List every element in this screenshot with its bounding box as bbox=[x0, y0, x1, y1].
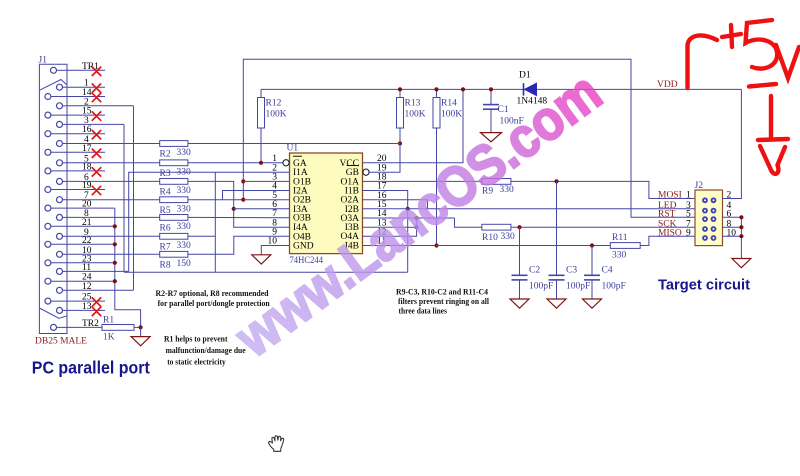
svg-text:1K: 1K bbox=[103, 333, 115, 343]
wire I3A branch bbox=[234, 208, 290, 210]
hand cursor icon bbox=[269, 436, 284, 452]
wire pin 17 bbox=[67, 151, 105, 153]
svg-text:13: 13 bbox=[82, 302, 92, 312]
connector J1 key notch bottom bbox=[39, 308, 67, 318]
connector J2 pin circle row 2 bbox=[711, 208, 717, 214]
IC U1 pin 1 bubble bbox=[283, 160, 289, 166]
wire O3A to SCK net bbox=[363, 217, 455, 219]
wire O2B branch bbox=[243, 199, 289, 201]
svg-text:330: 330 bbox=[177, 204, 192, 214]
wire GND bus vertical bbox=[115, 208, 141, 327]
ground at U1 GND bbox=[252, 255, 271, 264]
wire GB net to pin 19 bbox=[369, 144, 400, 173]
wire O1A to R9 bbox=[363, 180, 482, 182]
wire O4A branch bbox=[363, 218, 417, 236]
svg-text:GND: GND bbox=[293, 242, 314, 252]
connector J1 pin 12 bbox=[57, 287, 63, 293]
wire pin 2 bbox=[67, 105, 134, 107]
svg-text:C4: C4 bbox=[602, 266, 613, 276]
svg-text:R13: R13 bbox=[405, 99, 421, 109]
connector J1 pin 9 bbox=[57, 233, 63, 239]
svg-text:J1: J1 bbox=[39, 56, 48, 66]
junction R13 at GB net bbox=[398, 141, 402, 145]
capacitor C1 bbox=[490, 89, 492, 104]
resistor R4 bbox=[160, 179, 188, 185]
svg-text:330: 330 bbox=[177, 241, 192, 251]
svg-text:D1: D1 bbox=[519, 71, 531, 81]
no-connect X on pin 25 bbox=[92, 297, 101, 306]
svg-text:PC parallel port: PC parallel port bbox=[32, 357, 150, 377]
wire pin 4 bbox=[67, 143, 160, 145]
wire pin 14 bbox=[67, 96, 105, 98]
wire I2B / LED line to J2 bbox=[363, 208, 696, 210]
connector J1 pin 13 bbox=[57, 307, 63, 313]
wire pin TR2 bbox=[67, 326, 102, 328]
wire RST loop bbox=[243, 59, 695, 217]
resistor R7 bbox=[160, 233, 188, 239]
no-connect X on pin 17 bbox=[92, 149, 101, 158]
svg-text:330: 330 bbox=[177, 148, 192, 158]
svg-text:TR2: TR2 bbox=[82, 319, 99, 329]
connector J2 pin circle row 1 bbox=[711, 197, 717, 203]
wire pin 18 bbox=[67, 170, 105, 172]
capacitor C4 bbox=[591, 246, 593, 276]
connector J1 pin TR2 bbox=[51, 324, 57, 330]
junction R13 top bbox=[398, 87, 402, 91]
wire pin TR1 bbox=[67, 69, 105, 71]
svg-text:Target circuit: Target circuit bbox=[658, 277, 750, 294]
wire pin 6 bbox=[67, 180, 160, 182]
connector J1 pin 15 bbox=[45, 112, 51, 118]
wire pin 20 bbox=[67, 207, 115, 209]
wire O1B branch bbox=[243, 180, 289, 182]
wire pin 16 bbox=[67, 133, 105, 135]
connector J1 DB25 body bbox=[39, 64, 67, 333]
no-connect X on pin TR1 bbox=[92, 67, 101, 76]
connector J1 pin 7 bbox=[57, 197, 63, 203]
svg-text:MISO: MISO bbox=[658, 228, 682, 238]
connector J1 pin 6 bbox=[57, 178, 63, 184]
resistor R9 bbox=[482, 179, 511, 185]
junction C4 tap on MISO bbox=[590, 243, 594, 247]
wire pin 22 bbox=[67, 243, 115, 245]
svg-text:R11: R11 bbox=[612, 233, 628, 243]
connector J1 pin 5 bbox=[57, 160, 63, 166]
connector J2 pin circle row 3 bbox=[702, 216, 708, 222]
no-connect X on pin 16 bbox=[92, 130, 101, 139]
no-connect X on pin 1 bbox=[92, 84, 101, 93]
junction R12 at GA bbox=[259, 161, 263, 165]
wire R1 to ground bbox=[140, 327, 142, 336]
wire R5 output to O2B bbox=[188, 199, 243, 201]
connector J1 pin 16 bbox=[45, 131, 51, 137]
svg-text:330: 330 bbox=[501, 232, 516, 242]
connector J1 pin 19 bbox=[45, 187, 51, 193]
junction C1 top bbox=[489, 87, 493, 91]
junction pin 22 on GND bus bbox=[113, 242, 117, 246]
connector J1 pin 25 bbox=[45, 298, 51, 304]
junction pin 21 on GND bus bbox=[113, 224, 117, 228]
wire GND pin 10 to ground bbox=[261, 246, 289, 255]
wire I1B riser bbox=[363, 191, 408, 273]
svg-text:9: 9 bbox=[686, 228, 691, 238]
connector J1 pin 11 bbox=[57, 268, 63, 274]
resistor R11 bbox=[610, 243, 640, 249]
wire pin 8 bbox=[67, 216, 160, 218]
resistor R10 bbox=[482, 224, 511, 230]
svg-text:malfunction/damage due: malfunction/damage due bbox=[166, 345, 246, 355]
capacitor C2 bbox=[519, 227, 521, 275]
capacitor C3 bbox=[556, 181, 558, 275]
connector J1 pin 1 bbox=[57, 84, 63, 90]
resistor R14 bbox=[433, 98, 440, 129]
wire DB25 pin 2 vertical to pin 12 bbox=[133, 106, 135, 290]
wire pin 15 bbox=[67, 114, 105, 116]
wire J2 pin 2 to VDD bbox=[723, 89, 742, 198]
ground at C4 bbox=[583, 299, 602, 308]
ground at C1 bbox=[481, 133, 502, 142]
junction C3 tap on MOSI bbox=[554, 179, 558, 183]
svg-text:C2: C2 bbox=[529, 266, 540, 276]
svg-text:19: 19 bbox=[82, 181, 92, 191]
svg-text:330: 330 bbox=[177, 222, 192, 232]
wire DB25 pin 3 vertical bbox=[123, 124, 125, 272]
connector J1 pin 2 bbox=[57, 103, 63, 109]
svg-text:330: 330 bbox=[612, 251, 627, 261]
connector J1 pin 20 bbox=[45, 205, 51, 211]
wire pin 23 bbox=[67, 262, 115, 264]
wire R7 output to feedback net bbox=[188, 235, 215, 237]
connector J1 pin 22 bbox=[45, 241, 51, 247]
svg-text:17: 17 bbox=[82, 144, 92, 154]
svg-text:R9-C3, R10-C2 and R11-C4: R9-C3, R10-C2 and R11-C4 bbox=[396, 286, 489, 296]
IC U1 pin 19 bubble bbox=[363, 169, 369, 175]
resistor R13 bbox=[397, 98, 404, 129]
connector J2 pin circle row 5 bbox=[711, 235, 717, 241]
wire DB25 pin 11 to I1A bbox=[129, 172, 290, 271]
connector J1 pin 3 bbox=[57, 121, 63, 127]
svg-text:5: 5 bbox=[686, 210, 691, 220]
svg-text:to static electricity: to static electricity bbox=[167, 356, 226, 366]
wire pin 25 bbox=[67, 300, 105, 302]
svg-text:16: 16 bbox=[82, 125, 92, 135]
connector J1 pin 23 bbox=[45, 260, 51, 266]
svg-text:330: 330 bbox=[177, 186, 192, 196]
connector J1 pin 8 bbox=[57, 214, 63, 220]
svg-text:100pF: 100pF bbox=[529, 282, 553, 292]
svg-text:R14: R14 bbox=[441, 99, 457, 109]
no-connect X on pin 18 bbox=[92, 167, 101, 176]
junction R14 top bbox=[434, 87, 438, 91]
resistor R3 bbox=[160, 160, 188, 166]
wire I4B / MISO line bbox=[363, 245, 611, 247]
wire R2 output to GB node bbox=[188, 143, 398, 145]
resistor R2 bbox=[160, 141, 188, 147]
wire pin 9 bbox=[67, 235, 160, 237]
svg-text:RST: RST bbox=[658, 210, 676, 220]
svg-text:100pF: 100pF bbox=[566, 282, 590, 292]
svg-text:6: 6 bbox=[727, 210, 732, 220]
junction loop at O1B bbox=[241, 179, 245, 183]
connector J1 key notch top bbox=[39, 80, 67, 91]
no-connect X on pin 19 bbox=[92, 186, 101, 195]
wire SCK to J2 bbox=[511, 226, 695, 228]
IC U1 74HC244 body bbox=[290, 153, 363, 254]
wire R6 output to O3B bbox=[188, 216, 290, 218]
hand-drawn +5V marking bbox=[688, 20, 800, 174]
svg-text:100K: 100K bbox=[441, 110, 462, 120]
svg-text:MOSI: MOSI bbox=[658, 191, 682, 201]
svg-text:11: 11 bbox=[82, 263, 91, 273]
resistor R5 bbox=[160, 197, 188, 203]
svg-text:22: 22 bbox=[82, 236, 92, 246]
junction loop at O2B bbox=[241, 198, 245, 202]
no-connect X on pin 14 bbox=[92, 93, 101, 102]
svg-text:DB25 MALE: DB25 MALE bbox=[35, 337, 87, 347]
connector J2 pin circle row 4 bbox=[702, 226, 708, 232]
connector J1 pin 18 bbox=[45, 168, 51, 174]
wire VCC pin 20 to rail bbox=[363, 89, 464, 162]
resistor R12 bbox=[258, 98, 265, 129]
connector J1 pin 24 bbox=[45, 278, 51, 284]
svg-text:2: 2 bbox=[727, 191, 732, 201]
junction pin 24 on GND bus bbox=[113, 279, 117, 283]
svg-text:10: 10 bbox=[727, 228, 737, 238]
resistor R8 bbox=[160, 251, 188, 257]
svg-text:R1 helps to prevent: R1 helps to prevent bbox=[164, 334, 228, 344]
wire O2A branch to LED net bbox=[363, 200, 428, 209]
svg-text:R6: R6 bbox=[160, 224, 171, 234]
resistor R1 bbox=[102, 325, 134, 331]
svg-text:R2: R2 bbox=[160, 150, 171, 160]
ground at R1 bbox=[131, 337, 150, 346]
svg-text:U1: U1 bbox=[287, 144, 299, 154]
connector J2 pin circle row 5 bbox=[702, 235, 708, 241]
svg-text:C3: C3 bbox=[566, 266, 577, 276]
connector J1 pin 21 bbox=[45, 223, 51, 229]
connector J1 pin 10 bbox=[57, 251, 63, 257]
junction I3B tie bbox=[415, 225, 419, 229]
wire SCK drive bbox=[455, 218, 482, 227]
connector J1 pin 14 bbox=[45, 94, 51, 100]
svg-text:12: 12 bbox=[82, 282, 92, 292]
wire pin 11 bbox=[67, 270, 129, 272]
no-connect X on pin 13 bbox=[92, 307, 101, 316]
svg-text:R3: R3 bbox=[160, 169, 171, 179]
junction O4A tie bbox=[415, 216, 419, 220]
wire pin 5 bbox=[67, 162, 160, 164]
connector J2 pin circle row 4 bbox=[711, 226, 717, 232]
wire under IC feedback bbox=[124, 271, 408, 273]
junction riser at LED line bbox=[406, 207, 410, 211]
wire R8 output to O4B bbox=[188, 236, 290, 254]
ground at C2 bbox=[510, 299, 529, 308]
ground at C3 bbox=[547, 299, 566, 308]
wire pin 10 bbox=[67, 253, 160, 255]
wire pin 1 bbox=[67, 86, 105, 88]
junction J2 pin 8 bbox=[739, 225, 743, 229]
connector J2 pin circle row 3 bbox=[711, 216, 717, 222]
svg-text:150: 150 bbox=[177, 259, 192, 269]
no-connect X on pin 15 bbox=[92, 111, 101, 120]
diode D1 1N4148 bbox=[525, 83, 537, 95]
connector J1 pin TR1 bbox=[51, 67, 57, 73]
wire R11 to J2 MISO bbox=[640, 236, 695, 245]
connector J1 pin 17 bbox=[45, 149, 51, 155]
connector J2 body bbox=[695, 190, 723, 246]
wire R3 output to GA node bbox=[188, 162, 283, 164]
junction R1 output bbox=[139, 325, 143, 329]
wire MOSI to J2 bbox=[511, 181, 695, 198]
ground at J2 bbox=[732, 259, 751, 268]
svg-text:R4: R4 bbox=[160, 188, 171, 198]
wire pin 3 bbox=[67, 123, 124, 125]
svg-text:three data lines: three data lines bbox=[399, 305, 448, 315]
junction VCC riser at rail bbox=[461, 87, 465, 91]
svg-text:100K: 100K bbox=[266, 110, 287, 120]
wire vertical feedback riser bbox=[214, 172, 216, 272]
svg-text:21: 21 bbox=[82, 218, 92, 228]
connector J1 pin 4 bbox=[57, 141, 63, 147]
wire pin 7 bbox=[67, 199, 160, 201]
svg-text:7: 7 bbox=[272, 209, 277, 219]
svg-text:100K: 100K bbox=[405, 110, 426, 120]
junction C2 tap on SCK bbox=[517, 225, 521, 229]
svg-text:100pF: 100pF bbox=[602, 282, 626, 292]
junction R4 net at I3A bbox=[232, 207, 236, 211]
wire J2 ground pins bbox=[723, 217, 742, 258]
wire pin 13 bbox=[67, 309, 105, 311]
wire pin 12 bbox=[67, 289, 134, 291]
connector J2 pin circle row 1 bbox=[702, 197, 708, 203]
wire pin 24 bbox=[67, 280, 115, 282]
wire R4 output bbox=[188, 181, 290, 227]
svg-text:O3B: O3B bbox=[293, 214, 311, 224]
junction R14 at MISO line bbox=[434, 243, 438, 247]
svg-text:R12: R12 bbox=[266, 99, 282, 109]
wire I2A branch from R5 line bbox=[223, 191, 290, 200]
power rail VDD bbox=[261, 88, 741, 90]
svg-text:18: 18 bbox=[82, 162, 92, 172]
svg-text:R1: R1 bbox=[103, 315, 114, 325]
svg-text:1: 1 bbox=[686, 191, 691, 201]
svg-text:R8: R8 bbox=[160, 261, 171, 271]
svg-text:R10: R10 bbox=[482, 233, 498, 243]
resistor R6 bbox=[160, 215, 188, 221]
svg-text:VDD: VDD bbox=[657, 80, 678, 90]
svg-text:J2: J2 bbox=[695, 181, 704, 191]
junction pin 23 on GND bus bbox=[113, 261, 117, 265]
wire I3B branch bbox=[363, 226, 417, 228]
junction J2 pin 6 bbox=[739, 215, 743, 219]
junction J2 pin 10 bbox=[739, 234, 743, 238]
wire pin 19 bbox=[67, 189, 105, 191]
wire pin 21 bbox=[67, 225, 115, 227]
connector J2 pin circle row 2 bbox=[702, 208, 708, 214]
